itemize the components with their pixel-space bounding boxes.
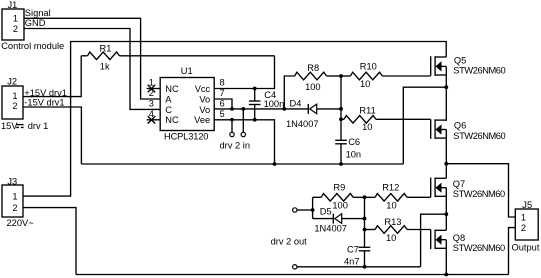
capacitor C7 xyxy=(344,244,370,266)
wire Q7 junction tap to drv2 return xyxy=(421,214,447,267)
resistor R12 xyxy=(365,182,431,210)
wire Q7 to Q8 drain xyxy=(445,214,447,230)
svg-text:6: 6 xyxy=(220,98,225,108)
resistor R8 xyxy=(284,63,341,109)
svg-text:Vo: Vo xyxy=(199,105,210,115)
svg-text:R8: R8 xyxy=(307,63,319,73)
svg-text:U1: U1 xyxy=(181,66,193,76)
svg-text:1: 1 xyxy=(12,91,17,101)
pin 1 stub with X xyxy=(147,78,161,93)
svg-text:7: 7 xyxy=(220,88,225,98)
terminal drv 2 in Vo xyxy=(241,109,245,137)
resistor R1 xyxy=(81,43,274,71)
transistor Q6 xyxy=(431,119,506,141)
svg-text:2: 2 xyxy=(149,88,154,98)
svg-text:1k: 1k xyxy=(100,61,110,71)
svg-text:J1: J1 xyxy=(8,0,18,10)
svg-text:2: 2 xyxy=(12,203,17,213)
svg-text:100n: 100n xyxy=(264,99,285,109)
svg-text:R13: R13 xyxy=(384,217,401,227)
wire J3 pin2 to bottom rail xyxy=(23,208,76,275)
wire J5 pin2 to bottom rail xyxy=(509,228,516,275)
svg-text:220V~: 220V~ xyxy=(7,218,35,228)
wire +15V from J2 to R1 xyxy=(23,56,81,97)
svg-text:Vee: Vee xyxy=(194,115,210,125)
svg-text:10: 10 xyxy=(360,79,370,89)
svg-text:1: 1 xyxy=(521,212,526,222)
svg-text:NC: NC xyxy=(165,84,179,94)
svg-text:R10: R10 xyxy=(360,62,377,72)
svg-text:1: 1 xyxy=(13,14,18,24)
pin 4 stub with X xyxy=(147,109,161,124)
svg-text:15V: 15V xyxy=(1,121,18,131)
resistor R13 xyxy=(365,217,431,243)
wire Q6 junction to Q7 drain xyxy=(445,164,447,179)
svg-text:4n7: 4n7 xyxy=(344,257,360,267)
svg-text:drv 1: drv 1 xyxy=(28,121,49,131)
svg-text:J2: J2 xyxy=(7,76,17,86)
svg-text:D5: D5 xyxy=(320,207,332,217)
wire U1 pin6 Vo to D4 xyxy=(214,108,308,110)
svg-text:GND: GND xyxy=(25,18,46,28)
diode D4 1N4007 xyxy=(286,98,341,129)
wire GND from J1 to U1 pin3 xyxy=(24,29,160,110)
diode D5 1N4007 xyxy=(313,207,365,234)
svg-text:C6: C6 xyxy=(348,137,360,147)
connector J1 xyxy=(1,0,64,51)
resistor R9 xyxy=(313,182,365,210)
svg-text:10n: 10n xyxy=(346,149,362,159)
transistor Q5 xyxy=(431,56,506,76)
svg-text:10: 10 xyxy=(386,233,396,243)
label 15V dc drv 1 xyxy=(1,121,48,131)
connector J5 xyxy=(512,200,540,252)
terminal drv 2 in Vee xyxy=(230,120,234,137)
svg-text:STW26NM60: STW26NM60 xyxy=(453,243,505,253)
svg-text:R9: R9 xyxy=(333,182,345,192)
svg-text:J3: J3 xyxy=(7,176,17,186)
svg-text:Q8: Q8 xyxy=(453,233,465,243)
wire Signal from J1 to U1 pin2 xyxy=(24,18,160,99)
wire output junction to J5 pin1 xyxy=(446,164,515,217)
svg-text:5: 5 xyxy=(220,109,225,119)
wire Vcc riser to U1 pin8 xyxy=(214,56,274,89)
svg-text:1: 1 xyxy=(12,191,17,201)
wire Q8 source to bottom rail xyxy=(445,248,447,274)
svg-text:R11: R11 xyxy=(359,106,375,116)
svg-text:2: 2 xyxy=(521,223,526,233)
svg-text:Signal: Signal xyxy=(25,8,51,18)
wire Q6 source to output junction xyxy=(445,138,447,164)
svg-text:10: 10 xyxy=(386,201,396,211)
svg-text:drv 2 out: drv 2 out xyxy=(271,237,308,247)
svg-text:STW26NM60: STW26NM60 xyxy=(453,189,505,199)
svg-text:J5: J5 xyxy=(522,200,532,210)
transistor Q7 xyxy=(431,178,505,200)
wire Q5 source to junction xyxy=(445,75,447,87)
resistor R11 xyxy=(341,106,431,133)
svg-text:Control module: Control module xyxy=(1,41,64,51)
svg-text:Q6: Q6 xyxy=(454,121,466,131)
svg-text:-15V drv1: -15V drv1 xyxy=(24,98,64,108)
svg-text:A: A xyxy=(165,94,172,104)
svg-text:C: C xyxy=(165,105,172,115)
svg-text:Vcc: Vcc xyxy=(195,84,211,94)
wire R9/D5 left vertical xyxy=(312,197,314,218)
svg-text:Q5: Q5 xyxy=(454,56,466,66)
svg-text:drv 2 in: drv 2 in xyxy=(220,140,251,150)
svg-text:Output: Output xyxy=(512,243,540,253)
wire Vee rail xyxy=(81,163,403,165)
svg-text:STW26NM60: STW26NM60 xyxy=(453,66,505,76)
connector J2 xyxy=(2,76,23,119)
wire U1 pin5 Vee to rail xyxy=(214,120,274,164)
resistor R10 xyxy=(341,62,431,90)
svg-text:3: 3 xyxy=(149,98,154,108)
terminal drv 2 out lower xyxy=(293,265,421,269)
svg-text:Q7: Q7 xyxy=(453,179,465,189)
svg-text:R1: R1 xyxy=(100,43,112,53)
capacitor C6 xyxy=(335,137,361,164)
svg-text:8: 8 xyxy=(220,78,225,88)
svg-text:STW26NM60: STW26NM60 xyxy=(453,131,505,141)
connector J3 xyxy=(2,176,34,228)
svg-text:D4: D4 xyxy=(290,98,302,108)
wire node vertical R9/D5/R13/C7 xyxy=(364,197,366,247)
svg-text:2: 2 xyxy=(12,101,17,111)
terminal drv 2 out upper xyxy=(293,208,313,212)
svg-text:NC: NC xyxy=(165,115,179,125)
wire Q5 to Q6 drain xyxy=(445,87,447,121)
svg-text:1N4007: 1N4007 xyxy=(314,223,347,233)
op-amp U1 HCPL3120 body xyxy=(160,66,214,141)
svg-text:10: 10 xyxy=(362,122,372,132)
wire J3 pin1 up-and-over to Q5 drain xyxy=(23,42,446,197)
wire Q5 source tap to Vee rail xyxy=(403,87,446,164)
svg-text:100: 100 xyxy=(332,201,348,211)
wire Q7 source to junction xyxy=(445,196,447,214)
wire node vertical R8/D4/R11/C6 xyxy=(340,76,342,140)
wire bottom rail xyxy=(76,274,509,276)
svg-text:R12: R12 xyxy=(382,182,399,192)
transistor Q8 xyxy=(431,230,505,254)
pin 7 number and tie to pin 6 xyxy=(214,88,232,109)
capacitor C4 xyxy=(249,89,284,120)
svg-text:C7: C7 xyxy=(347,244,359,254)
svg-text:2: 2 xyxy=(13,24,18,34)
wire -15V from J2 down to Vee rail xyxy=(23,107,81,164)
svg-text:100: 100 xyxy=(305,82,321,92)
svg-text:HCPL3120: HCPL3120 xyxy=(164,132,208,142)
svg-text:1N4007: 1N4007 xyxy=(286,119,319,129)
svg-text:Vo: Vo xyxy=(199,94,210,104)
